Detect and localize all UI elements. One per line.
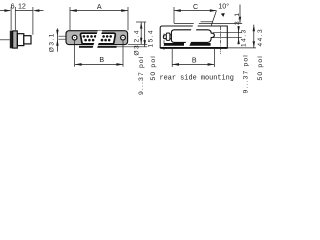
10 deg extension slant — [211, 11, 216, 26]
center cluster tick — [136, 21, 146, 23]
pins row1 left — [83, 35, 97, 38]
label 2.4 rotated — [134, 29, 141, 43]
label 9-37 pol center rotated — [138, 56, 145, 95]
svg-text:Ø3: Ø3 — [134, 44, 141, 56]
rear view screw head cross — [163, 33, 171, 40]
dim 44.3 line — [253, 25, 255, 48]
dim C line — [174, 10, 217, 12]
dim A arrows — [70, 9, 128, 12]
label 15.4 rotated — [147, 29, 154, 48]
band bottom extension tick — [117, 46, 148, 48]
label 44.3 rotated — [257, 28, 264, 47]
svg-text:B: B — [99, 56, 104, 64]
svg-text:15.4: 15.4 — [147, 29, 154, 48]
label 12 — [18, 3, 26, 11]
label 50 pol right rotated — [257, 55, 264, 80]
dim 6-12 line — [0, 10, 44, 12]
label 10 deg — [218, 2, 229, 10]
label B front — [99, 56, 104, 64]
svg-text:50 pol: 50 pol — [257, 55, 264, 80]
dia 3.1 leader lines — [58, 36, 72, 39]
label C — [193, 3, 198, 11]
rear view centerline left — [163, 34, 165, 51]
dim dia 3.1 line — [56, 28, 58, 51]
rear view top line (50pol) — [174, 22, 242, 24]
svg-text:2.4: 2.4 — [134, 29, 141, 43]
svg-text:10°: 10° — [218, 2, 229, 10]
pins row2 left — [84, 39, 94, 42]
rear view body bubble — [171, 30, 214, 43]
rear B extension lines — [172, 49, 214, 67]
pins row2 right — [101, 39, 111, 42]
dim C arrows — [174, 9, 217, 12]
dim B line rear — [172, 63, 214, 65]
svg-text:A: A — [97, 3, 102, 11]
dim 44.3 arrows — [253, 25, 255, 48]
hole centerline right — [122, 40, 124, 66]
label B rear — [192, 56, 197, 64]
dim 6-12 arrows — [4, 9, 39, 12]
side view shroud — [17, 34, 23, 46]
dim 3.1 arrow — [239, 17, 241, 24]
svg-text:rear side mounting: rear side mounting — [160, 74, 234, 82]
rear view centerline right — [220, 27, 222, 55]
side view mating face — [24, 36, 31, 44]
label 9-37 pol right rotated — [243, 54, 250, 93]
svg-text:6: 6 — [11, 3, 15, 11]
dim A line — [70, 10, 128, 12]
dim dia 3.1 arrows — [56, 30, 58, 46]
center dim line 2 — [144, 22, 146, 47]
10 deg horizontal tick — [201, 21, 213, 23]
front view lower band (50pol outline) — [79, 46, 117, 48]
center dim line 1 — [140, 22, 142, 44]
dim 14.3 line — [238, 26, 240, 44]
dim 6-12 extension lines — [11, 7, 33, 35]
svg-text:44.3: 44.3 — [257, 28, 264, 47]
break slash front view — [92, 31, 102, 50]
rear view flange bar right — [188, 43, 210, 46]
hole centerline left — [74, 40, 76, 66]
svg-text:Ø3.1: Ø3.1 — [48, 32, 55, 52]
rear view bottom extension — [228, 47, 257, 49]
10 deg arc arrow — [221, 13, 225, 17]
far left centerline — [0, 39, 10, 41]
label A — [97, 3, 102, 11]
dim 3.1 line top right — [239, 5, 241, 24]
dim B line front — [75, 63, 123, 65]
center dim 2 arrow — [144, 40, 146, 46]
side view face bar — [10, 31, 13, 49]
svg-text:50 pol: 50 pol — [150, 55, 157, 80]
mounting hole right — [121, 35, 126, 40]
dim A extension lines — [70, 7, 128, 30]
label rear side mounting — [160, 74, 234, 82]
svg-text:9...37 pol: 9...37 pol — [243, 54, 250, 93]
rear view flange bar left — [164, 43, 184, 46]
svg-text:12: 12 — [18, 3, 26, 11]
center dim 1 arrows — [140, 22, 142, 44]
D insert — [80, 33, 115, 44]
svg-text:C: C — [193, 3, 198, 11]
label dia3 rotated — [134, 44, 141, 56]
side view flange — [13, 31, 18, 48]
label 50 pol center rotated — [150, 55, 157, 80]
svg-text:3.1: 3.1 — [234, 11, 241, 25]
svg-text:9...37 pol: 9...37 pol — [138, 56, 145, 95]
label dia 3.1 rotated — [48, 32, 55, 52]
flange bottom extension tick — [128, 43, 147, 45]
mounting hole left — [72, 35, 77, 40]
dim B arrows front — [75, 63, 123, 66]
pins row1 right — [102, 35, 112, 38]
label 6 — [11, 3, 15, 11]
dim 14.3 arrows — [237, 26, 239, 44]
rear view leader lines — [213, 33, 242, 38]
label 14.3 rotated — [241, 28, 248, 47]
svg-text:B: B — [192, 56, 197, 64]
rear view bottom edge — [160, 47, 227, 49]
break slash rear view — [184, 22, 199, 47]
front view flange — [66, 31, 128, 45]
dim B arrows rear — [172, 63, 214, 66]
label 3.1 rotated — [234, 11, 241, 25]
svg-text:14.3: 14.3 — [241, 28, 248, 47]
rear view box — [160, 26, 227, 48]
dim C extension line — [173, 7, 175, 23]
